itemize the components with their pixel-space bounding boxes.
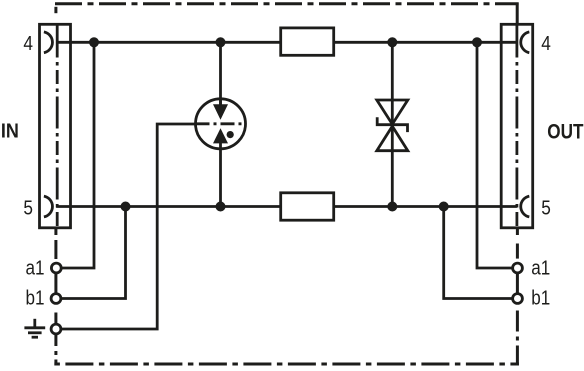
svg-text:5: 5 bbox=[23, 197, 33, 219]
contact 5 IN (socket arc) bbox=[44, 196, 53, 217]
svg-text:a1: a1 bbox=[531, 257, 550, 279]
junction top rail / gas discharge tube bbox=[216, 37, 226, 47]
terminal block IN body bbox=[40, 24, 71, 228]
enclosure border right segments below OUT block bbox=[516, 229, 519, 366]
junction top rail / TVS diode bbox=[387, 37, 397, 47]
terminal block IN center dash-dot line bbox=[56, 26, 59, 228]
enclosure dash-dot border top bbox=[55, 2, 519, 5]
svg-text:OUT: OUT bbox=[547, 120, 583, 143]
enclosure dash-dot border top-left stub bbox=[54, 7, 57, 13]
contact 4 IN (socket arc) bbox=[44, 32, 53, 53]
enclosure border left segments below IN block bbox=[54, 229, 57, 366]
svg-text:a1: a1 bbox=[26, 257, 45, 279]
TVS suppressor diode V1 (bidirectional) bbox=[377, 42, 408, 206]
svg-text:4: 4 bbox=[23, 33, 33, 55]
junction top rail / a1 OUT bbox=[472, 37, 482, 47]
contact 5 OUT (socket arc) bbox=[521, 196, 530, 217]
wire bottom rail right segment bbox=[334, 205, 517, 208]
svg-text:4: 4 bbox=[541, 33, 551, 55]
resistor R2 (bottom decoupling element) bbox=[281, 193, 334, 220]
terminal b1 IN bbox=[51, 294, 61, 304]
wire ground terminal to gas discharge tube bbox=[61, 124, 196, 329]
svg-text:b1: b1 bbox=[26, 288, 45, 310]
wire bottom rail left segment bbox=[56, 205, 281, 208]
wire a1 IN to top rail bbox=[61, 42, 94, 268]
resistor R1 (top decoupling element) bbox=[281, 28, 334, 55]
wire b1 OUT to bottom rail bbox=[444, 207, 513, 299]
junction bottom rail / gas discharge tube bbox=[216, 202, 226, 212]
ground symbol bbox=[24, 319, 45, 337]
wire top rail left segment bbox=[56, 41, 281, 44]
svg-text:b1: b1 bbox=[531, 288, 550, 310]
wire a1 OUT to top rail bbox=[477, 42, 513, 268]
svg-text:IN: IN bbox=[1, 121, 19, 143]
terminal b1 OUT bbox=[513, 294, 523, 304]
wire b1 IN to bottom rail bbox=[61, 207, 126, 299]
svg-text:5: 5 bbox=[541, 197, 551, 219]
junction bottom rail / b1 OUT bbox=[439, 202, 449, 212]
junction top rail / a1 IN bbox=[89, 37, 99, 47]
junction bottom rail / TVS diode bbox=[387, 202, 397, 212]
terminal a1 OUT bbox=[513, 263, 523, 273]
terminal block OUT center dash-dot line bbox=[516, 26, 519, 228]
terminal block OUT body bbox=[501, 24, 533, 228]
terminal a1 IN bbox=[51, 263, 61, 273]
gas discharge tube F1 bbox=[196, 42, 246, 206]
junction bottom rail / b1 IN bbox=[121, 202, 131, 212]
contact 4 OUT (socket arc) bbox=[521, 32, 530, 53]
enclosure dash-dot border top-right stub bbox=[516, 3, 519, 25]
terminal ground IN bbox=[51, 324, 61, 334]
wire top rail right segment bbox=[334, 41, 517, 44]
enclosure dash-dot border bottom bbox=[54, 363, 519, 366]
